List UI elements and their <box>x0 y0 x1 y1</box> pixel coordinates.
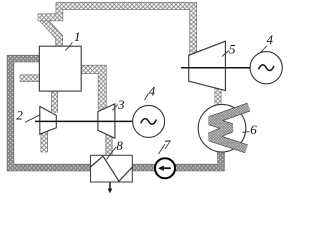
condenser 6 circle <box>198 104 246 152</box>
steam turbine 5 <box>189 41 226 90</box>
generator 4 (steam side) <box>250 52 282 84</box>
svg-text:8: 8 <box>116 138 123 153</box>
label 8 with leader <box>107 138 124 160</box>
label 6 with leader <box>243 122 258 137</box>
label 4 gas generator with leader <box>145 83 156 100</box>
economizer / heat exchanger 8 <box>91 155 133 182</box>
label 1 with leader <box>66 29 81 51</box>
label 5 with leader <box>222 41 236 56</box>
boiler (high-pressure steam generator) 1 <box>39 46 81 91</box>
wire: feedwater line condenser -> pump 7 -> economizer 8 -> boiler 1 (dotted water pipe) <box>11 59 222 168</box>
svg-text:4: 4 <box>149 83 156 98</box>
svg-text:6: 6 <box>250 122 257 137</box>
steam shaft line <box>181 67 250 69</box>
pump 7 <box>155 158 175 178</box>
gas turbine 3 <box>98 104 115 138</box>
wire: exhaust gas duct gas turbine 3 -> economizer 8 <box>106 134 113 158</box>
label 2 with leader <box>16 107 40 122</box>
svg-text:5: 5 <box>229 41 236 56</box>
wire: hot gas line boiler 1 right -> gas turbine 3 <box>80 69 102 110</box>
label 7 with leader <box>159 137 171 154</box>
gas shaft line <box>35 120 133 122</box>
compressor 2 <box>40 106 57 134</box>
svg-text:1: 1 <box>74 29 81 44</box>
wire: exhaust steam duct steam turbine 5 -> condenser 6 <box>215 88 222 107</box>
flue gas exhaust arrow below economizer 8 <box>108 182 113 193</box>
condenser cooling water coil (hatched band) <box>210 107 249 149</box>
label 4 steam generator with leader <box>261 32 274 53</box>
generator 4 (gas side) <box>133 105 165 137</box>
svg-text:4: 4 <box>267 32 274 47</box>
wire: fuel inlet stub into boiler 1 left <box>20 74 40 81</box>
svg-text:3: 3 <box>117 97 125 112</box>
svg-text:7: 7 <box>164 137 171 152</box>
wire: steam zigzag riser from boiler 1 top (hatched) <box>42 19 59 48</box>
label 3 with leader <box>113 97 126 112</box>
svg-text:2: 2 <box>16 107 23 122</box>
wire: compressed air duct compressor 2 -> boiler 1 bottom <box>51 90 58 113</box>
wire: air intake stub below compressor 2 <box>41 131 48 152</box>
wire: main steam line across the top to steam turbine 5 <box>38 6 194 56</box>
